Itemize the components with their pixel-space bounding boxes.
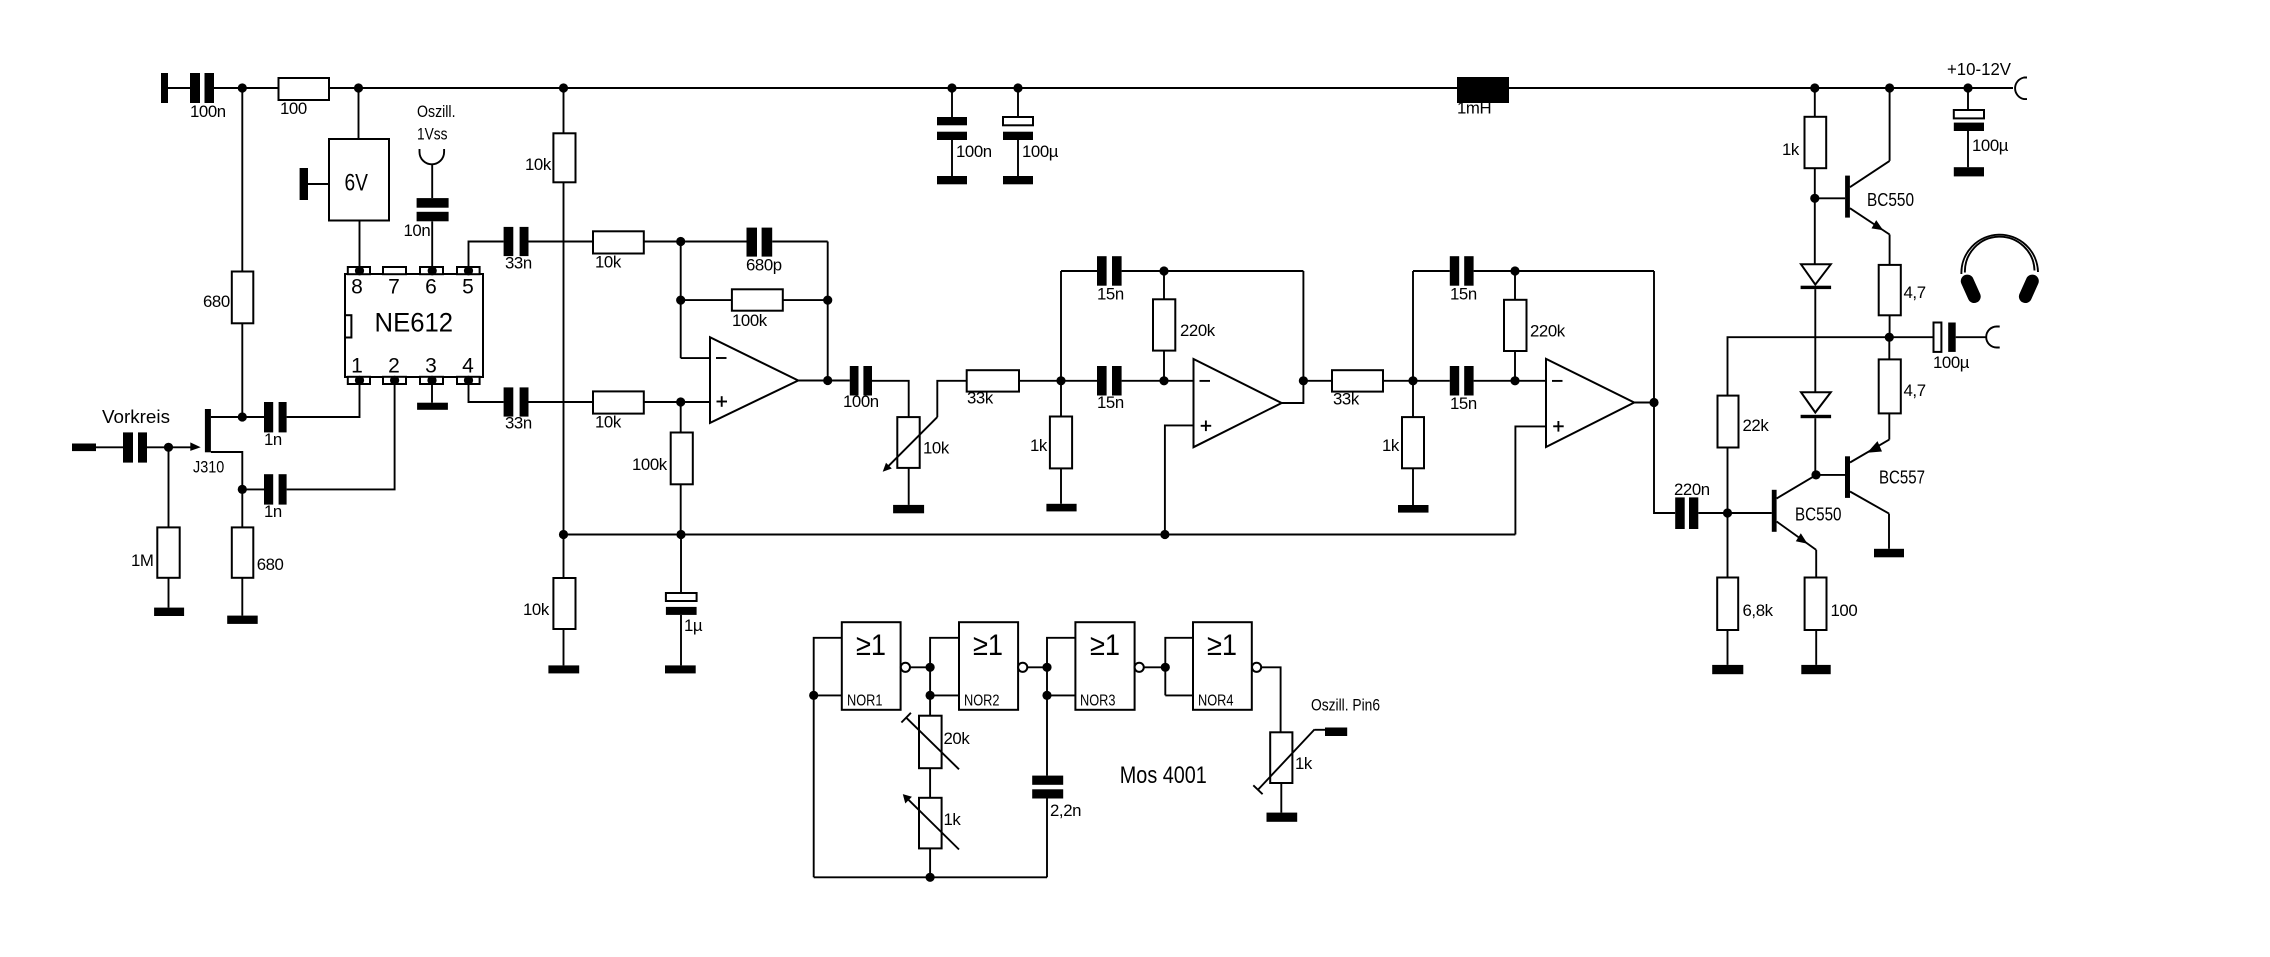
wire (pin 4 riser) xyxy=(469,384,504,402)
svg-text:Oszill. Pin6: Oszill. Pin6 xyxy=(1311,697,1380,715)
wire (op-amp output) xyxy=(798,380,850,382)
resistor 220k (op3 feedback) xyxy=(1504,300,1566,351)
node minus op3 xyxy=(1510,376,1519,385)
svg-text:15n: 15n xyxy=(1450,394,1477,413)
svg-text:1: 1 xyxy=(351,355,363,378)
wire (220k top op3) xyxy=(1514,271,1516,300)
wire xyxy=(96,446,123,448)
node 15n/220k top op3 xyxy=(1510,266,1519,275)
svg-text:NOR3: NOR3 xyxy=(1080,693,1116,710)
node pin6 xyxy=(428,266,437,275)
node 220n/22k xyxy=(1723,508,1732,517)
capacitor 100n (decoupling) xyxy=(937,117,992,161)
wire + ground (100n) xyxy=(951,140,953,176)
wire (source) xyxy=(211,452,242,489)
wire (base wire BC550 lower) xyxy=(1728,512,1772,514)
capacitor 100n (interstage) xyxy=(843,366,879,411)
node op1 out xyxy=(823,376,832,385)
svg-text:10k: 10k xyxy=(923,439,950,458)
diode D1 xyxy=(1801,264,1832,289)
ground (oszill 1k) xyxy=(1267,813,1298,822)
capacitor 33n (pin5) xyxy=(504,227,532,273)
svg-text:BC550: BC550 xyxy=(1867,190,1914,210)
wire (to 680p) xyxy=(681,241,747,243)
node bus/10k xyxy=(559,530,568,539)
node bus/op2 plus xyxy=(1160,530,1169,539)
wire (pin 5 riser) xyxy=(469,242,504,272)
svg-text:6V: 6V xyxy=(345,170,369,197)
wire (NOR2 input vertical) xyxy=(930,638,959,716)
svg-text:10k: 10k xyxy=(525,155,552,174)
resistor 100k (to bus) xyxy=(632,433,693,485)
wire (10k to node) xyxy=(644,241,681,243)
wire (drain to node) xyxy=(211,416,242,418)
wire xyxy=(1413,270,1450,272)
inductor 1mH xyxy=(1457,77,1509,118)
svg-text:2: 2 xyxy=(388,355,400,378)
svg-text:100k: 100k xyxy=(732,311,768,330)
transistor J310 Q1 xyxy=(190,409,224,477)
resistor 33k (op2 input) xyxy=(967,370,1019,407)
capacitor 100u (output, electrolytic) xyxy=(1933,323,1970,373)
potentiometer 1k (Oszill out) xyxy=(1253,729,1314,794)
node source xyxy=(238,485,247,494)
wire (680 to ground) xyxy=(241,578,243,616)
wire (node to 15n) xyxy=(1061,380,1097,382)
wire (NOR2 lower input) xyxy=(930,694,959,696)
op-amp U2C xyxy=(1546,359,1634,447)
wire (rail down to 680) xyxy=(241,88,243,272)
wire (NOR4 lower input) xyxy=(1165,694,1193,696)
wire (minus input) xyxy=(681,357,710,359)
resistor 220k (op2 feedback) xyxy=(1153,299,1216,350)
node NOR1 input xyxy=(809,691,818,700)
svg-text:1mH: 1mH xyxy=(1457,99,1491,118)
wire (33n to 10k lower) xyxy=(529,401,594,403)
wire (between diodes) xyxy=(1814,289,1816,392)
svg-text:BC550: BC550 xyxy=(1795,505,1842,525)
svg-text:4,7: 4,7 xyxy=(1904,283,1926,302)
resistor 10k (divider bottom) xyxy=(523,578,576,629)
svg-text:+10-12V: +10-12V xyxy=(1947,59,2011,79)
NOR gate NOR2 xyxy=(959,622,1027,710)
wire (source node to 680) xyxy=(241,489,243,527)
svg-text:100: 100 xyxy=(280,99,307,118)
node rail/BC550 xyxy=(1885,83,1894,92)
svg-text:6: 6 xyxy=(425,276,437,299)
wire (op3 plus to bus) xyxy=(1515,426,1546,534)
wire (1u to ground) xyxy=(680,615,682,666)
svg-text:Vorkreis: Vorkreis xyxy=(102,407,170,427)
node pin5 xyxy=(464,266,473,275)
svg-text:10k: 10k xyxy=(595,413,622,432)
wire (15n to minus node op3) xyxy=(1474,380,1515,382)
resistor 10k (first filter bottom) xyxy=(593,391,644,431)
svg-text:10k: 10k xyxy=(523,600,550,619)
svg-text:1Vss: 1Vss xyxy=(417,126,448,144)
svg-text:5: 5 xyxy=(462,276,474,299)
wire (top rail, 100n to 100) xyxy=(214,87,279,89)
wire (33k to node) xyxy=(1383,380,1413,382)
wire (bus to 10k) xyxy=(563,535,565,579)
wire (wiper to terminal) xyxy=(1315,729,1325,731)
wire (diode to collector node) xyxy=(1814,418,1816,475)
resistor 100 xyxy=(279,78,330,118)
wire (680p to fb right) xyxy=(772,241,828,243)
capacitor 1n (to pin 1) xyxy=(264,402,287,449)
op-amp U2A xyxy=(710,337,798,423)
wire (4,7 to output node) xyxy=(1889,315,1891,337)
ground (BC557) xyxy=(1874,549,1904,558)
wire (emitter to 4,7) xyxy=(1889,235,1891,265)
resistor 10k (divider top) xyxy=(525,133,576,182)
node NOR3 in lower xyxy=(1042,691,1051,700)
capacitor 100n (input coupling) xyxy=(190,73,226,121)
ground (1k op2) xyxy=(1046,504,1076,512)
terminal (Oszill. Pin6) xyxy=(1325,728,1347,737)
input terminal (top left) xyxy=(161,73,168,103)
node op3 out xyxy=(1649,398,1658,407)
capacitor 10n xyxy=(404,198,449,240)
capacitor (Vorkreis coupling) xyxy=(123,432,147,462)
NOR gate NOR3 xyxy=(1075,622,1143,710)
resistor 680 (upper) xyxy=(203,272,253,324)
wire (100k to bus) xyxy=(680,484,682,534)
resistor 10k (first filter top) xyxy=(593,231,644,271)
node 100k fb right xyxy=(823,296,832,305)
capacitor 1n (to pin 2) xyxy=(264,474,287,521)
wire (680 to drain node) xyxy=(241,323,243,417)
svg-text:10k: 10k xyxy=(595,253,622,272)
wire (220k bottom op3) xyxy=(1514,351,1516,381)
svg-text:100n: 100n xyxy=(956,142,992,161)
ground (1M) xyxy=(154,608,184,616)
resistor 4,7 (lower) xyxy=(1879,359,1926,413)
svg-text:220k: 220k xyxy=(1530,322,1566,341)
bus wire (virtual ground) xyxy=(564,534,1516,536)
wire (BC557 collector to ground) xyxy=(1888,514,1890,549)
resistor 1M xyxy=(131,527,180,577)
svg-text:Oszill.: Oszill. xyxy=(417,103,456,121)
wire (output node to 33k) xyxy=(1303,380,1332,382)
wire + ground (100u right) xyxy=(1967,131,1969,167)
wire (plus node to 100k) xyxy=(680,402,682,433)
wire (node up to 15n fb) xyxy=(1060,271,1062,381)
capacitor 220n (output coupling) xyxy=(1674,480,1710,529)
resistor 100k (feedback) xyxy=(732,289,783,330)
wire (1n to pin 2) xyxy=(287,384,395,489)
wire (6,8k to ground) xyxy=(1727,630,1729,665)
svg-text:100µ: 100µ xyxy=(1933,353,1970,372)
svg-text:1µ: 1µ xyxy=(684,616,703,635)
svg-text:20k: 20k xyxy=(944,729,971,748)
wire (15n to minus node) xyxy=(1122,380,1164,382)
headphones icon xyxy=(1961,235,2038,297)
wire (fb right vertical) xyxy=(827,242,829,381)
wire (top rail, long) xyxy=(329,87,2013,89)
wire (minus input op3) xyxy=(1515,380,1546,382)
svg-text:100n: 100n xyxy=(843,392,879,411)
svg-text:15n: 15n xyxy=(1097,393,1124,412)
wire (base node to 22k) xyxy=(1727,448,1729,514)
node NOR4 in xyxy=(1161,663,1170,672)
resistor 680 (source) xyxy=(232,527,284,577)
svg-text:1n: 1n xyxy=(264,502,282,521)
headphone jack connector arc xyxy=(1986,327,1999,348)
ground (100) xyxy=(1801,665,1830,674)
diode D2 xyxy=(1801,392,1832,418)
wire (source node to 1n) xyxy=(242,488,264,490)
wire (NOR3 out to NOR4 in) xyxy=(1144,666,1166,668)
node rail/6V xyxy=(354,83,363,92)
svg-text:1n: 1n xyxy=(264,430,282,449)
wire (rail to 100u right) xyxy=(1967,88,1969,110)
op-amp IC NE612 U1 xyxy=(345,267,483,384)
wire (15n to 220k node) xyxy=(1122,270,1164,272)
wire (10n to pin 6) xyxy=(431,221,433,271)
ground (pot) xyxy=(893,505,924,513)
wire (1M to ground) xyxy=(168,578,170,608)
wire (220k node to op2 fb corner) xyxy=(1164,270,1303,272)
ground (pin 3) xyxy=(417,384,448,410)
node 33k/15n op3 xyxy=(1408,376,1417,385)
svg-text:BC557: BC557 xyxy=(1879,468,1925,488)
node pin8 xyxy=(355,266,364,275)
capacitor 15n (op2 feedback top) xyxy=(1097,256,1124,303)
wire (NOR2 out to NOR3 in) xyxy=(1027,666,1047,668)
svg-text:220n: 220n xyxy=(1674,480,1710,499)
wire (NOR1 lower input) xyxy=(814,694,842,696)
wire (op2 output up) xyxy=(1282,271,1304,403)
wire (bus to 1u) xyxy=(680,535,682,594)
potentiometer 20k (oscillator) xyxy=(901,713,970,770)
wire (drain node to 1n) xyxy=(242,416,264,418)
node 1k/diode top xyxy=(1810,194,1819,203)
input terminal (Vorkreis) xyxy=(72,444,96,452)
capacitor 33n (pin4) xyxy=(504,387,532,432)
svg-text:1k: 1k xyxy=(1382,436,1400,455)
wire (NOR3 lower input) xyxy=(1047,694,1075,696)
svg-text:1k: 1k xyxy=(1295,754,1313,773)
op-amp U2B xyxy=(1194,359,1282,447)
svg-text:100k: 100k xyxy=(632,455,668,474)
wire (BC557 emitter to 4,7 lower) xyxy=(1888,413,1890,439)
wire (220n to base node) xyxy=(1698,512,1727,514)
wire (100 to ground) xyxy=(1815,630,1817,665)
svg-text:≥1: ≥1 xyxy=(1090,629,1120,662)
wire (minus input op2) xyxy=(1164,380,1194,382)
svg-text:1M: 1M xyxy=(131,551,154,570)
wire (node to 15n op3) xyxy=(1413,380,1450,382)
wire (6V to pin 8) xyxy=(359,221,361,272)
wire (pot wiper up) xyxy=(937,381,966,417)
wire (collector to rail) xyxy=(1889,88,1891,161)
svg-text:NE612: NE612 xyxy=(375,308,454,338)
wire (rail to 100n decoupling) xyxy=(951,88,953,117)
resistor 1k (op2 shunt) xyxy=(1030,417,1072,469)
wire (1k to ground) xyxy=(1060,468,1062,503)
svg-text:100n: 100n xyxy=(190,102,226,121)
ground (10k divider) xyxy=(548,665,579,673)
wire (base wire BC550 upper) xyxy=(1815,197,1845,199)
wire (4,7 lower top to output node) xyxy=(1888,337,1890,359)
wire (1k to ground op3) xyxy=(1412,468,1414,505)
wire (10k to plus node) xyxy=(644,401,681,403)
wire (base node to 6,8k) xyxy=(1727,513,1729,578)
wire (22k up to output line) xyxy=(1728,337,1934,395)
node rail/1k xyxy=(1810,83,1819,92)
capacitor 100u (decoupling, electrolytic) xyxy=(1003,117,1059,161)
wire (100u to jack) xyxy=(1956,336,1987,338)
resistor 4,7 (upper) xyxy=(1879,265,1926,315)
node output line/4,7 xyxy=(1885,333,1894,342)
node op2 out xyxy=(1299,376,1308,385)
potentiometer 10k (volume) xyxy=(883,417,950,472)
wire (15n to 220k node op3) xyxy=(1474,270,1515,272)
svg-text:33k: 33k xyxy=(967,389,994,408)
node bus/1u xyxy=(676,530,685,539)
potentiometer 1k (oscillator) xyxy=(903,794,962,849)
svg-text:NOR1: NOR1 xyxy=(847,693,883,710)
node diode/BC557 base xyxy=(1811,470,1820,479)
wire xyxy=(168,87,190,89)
node rail/100n xyxy=(238,83,247,92)
wire (node to BC557 base) xyxy=(1816,474,1845,476)
wire (plus input) xyxy=(681,401,710,403)
svg-text:15n: 15n xyxy=(1450,285,1477,304)
resistor 6,8k (base divider low) xyxy=(1717,578,1773,631)
wire (33n to 10k) xyxy=(529,241,594,243)
resistor 1k (op3 shunt) xyxy=(1382,417,1424,468)
wire (2,2n to bottom bus) xyxy=(1046,799,1048,878)
svg-text:33k: 33k xyxy=(1333,390,1360,409)
wire (diode chain top) xyxy=(1814,198,1816,264)
svg-text:3: 3 xyxy=(425,355,437,378)
svg-text:4,7: 4,7 xyxy=(1904,381,1926,400)
node 100k fb left xyxy=(676,296,685,305)
ground (1u) xyxy=(665,665,696,673)
wire (node to 1k) xyxy=(1060,381,1062,417)
wire (rail to 6V box) xyxy=(358,88,360,139)
node NOR2 in upper xyxy=(926,663,935,672)
node 10k/33n xyxy=(676,237,685,246)
svg-text:1k: 1k xyxy=(1030,436,1048,455)
wire (cap to gate node) xyxy=(147,446,191,448)
svg-text:33n: 33n xyxy=(505,254,532,273)
wire (1k to base node up) xyxy=(1814,168,1816,198)
svg-text:100µ: 100µ xyxy=(1972,136,2009,155)
svg-text:1k: 1k xyxy=(944,810,962,829)
regulator 6V box xyxy=(329,139,389,221)
node pin4 xyxy=(464,376,473,385)
wire (arc to 10n) xyxy=(431,164,433,199)
svg-text:Mos 4001: Mos 4001 xyxy=(1120,762,1207,789)
terminal bar at 6V xyxy=(300,168,308,200)
node rail/100u dec xyxy=(1013,83,1022,92)
power connector arc xyxy=(2015,78,2027,100)
wire (220k top) xyxy=(1163,271,1165,299)
wire (output down to 220n) xyxy=(1654,403,1675,514)
svg-text:≥1: ≥1 xyxy=(1207,629,1237,662)
svg-text:15n: 15n xyxy=(1097,285,1124,304)
resistor 100 (emitter) xyxy=(1805,578,1858,631)
resistor 33k (op3 input) xyxy=(1332,370,1383,408)
capacitor 1u (bus bypass, electrolytic) xyxy=(666,593,703,635)
wire (rail to 10k divider top) xyxy=(563,88,565,133)
svg-text:J310: J310 xyxy=(193,458,224,477)
svg-text:≥1: ≥1 xyxy=(856,629,886,662)
wire (oscillator bottom bus) xyxy=(814,876,1047,878)
capacitor 15n (op3 input series) xyxy=(1450,366,1477,413)
svg-text:33n: 33n xyxy=(505,414,532,433)
wire (NOR4 out down) xyxy=(1261,667,1280,732)
Oszill input connector arc xyxy=(420,149,445,164)
capacitor 100u (supply, right) xyxy=(1954,110,2009,155)
svg-text:4: 4 xyxy=(462,355,474,378)
wire (1k to bottom bus) xyxy=(929,848,931,877)
wire (terminal to 6V box) xyxy=(308,183,329,185)
transistor BC557 Q4 xyxy=(1845,440,1925,514)
wire (NOR1 out to NOR2 in) xyxy=(910,666,930,668)
NOR gate NOR1 xyxy=(842,622,910,710)
wire (100k to fb right) xyxy=(783,299,828,301)
ground (680) xyxy=(227,616,258,624)
wire (node to 1k op3) xyxy=(1412,381,1414,417)
capacitor 15n (op2 input series) xyxy=(1097,366,1124,412)
svg-text:1k: 1k xyxy=(1782,140,1800,159)
wire (fb corner down) xyxy=(1653,271,1655,403)
ground (1k op3) xyxy=(1398,505,1429,513)
wire + ground (100u) xyxy=(1017,140,1019,176)
wire (fb top to op3 output corner) xyxy=(1515,270,1654,272)
wire (10k down to bus) xyxy=(563,182,565,534)
wire (node to 100k fb) xyxy=(681,299,732,301)
svg-text:NOR4: NOR4 xyxy=(1198,693,1234,710)
wire (100n to pot) xyxy=(872,381,909,417)
node minus op2 xyxy=(1159,376,1168,385)
svg-text:6,8k: 6,8k xyxy=(1743,601,1774,620)
wire (NOR1 inputs tied) xyxy=(814,638,842,878)
wire (10k to ground) xyxy=(563,629,565,665)
node pin2 xyxy=(390,376,399,385)
wire (NOR4 input vertical) xyxy=(1165,638,1193,696)
node rail/100n dec xyxy=(947,83,956,92)
wire (20k to 1k) xyxy=(929,768,931,798)
transistor BC550 (upper output) Q3 xyxy=(1845,161,1914,235)
node 33k/15n op2 xyxy=(1056,376,1065,385)
node wire (minus chain vertical) xyxy=(680,242,682,359)
node NOR3 in upper xyxy=(1042,663,1051,672)
node osc bus xyxy=(926,873,935,882)
svg-text:22k: 22k xyxy=(1743,416,1770,435)
node pin1 xyxy=(355,376,364,385)
ground (6,8k) xyxy=(1712,665,1743,674)
node rail/100u right xyxy=(1963,83,1972,92)
svg-text:7: 7 xyxy=(388,276,400,299)
resistor 1k (bias) xyxy=(1782,117,1826,168)
svg-text:680: 680 xyxy=(257,555,284,574)
wire (1k pot to ground) xyxy=(1280,783,1282,813)
capacitor 15n (op3 feedback top) xyxy=(1450,256,1477,303)
svg-text:2,2n: 2,2n xyxy=(1050,801,1081,820)
capacitor 680p (feedback) xyxy=(746,228,782,275)
wire xyxy=(1061,270,1097,272)
wire (1n to pin 1) xyxy=(287,384,360,417)
wire (pot to ground) xyxy=(908,468,910,505)
wire (emitter to 100) xyxy=(1815,550,1817,578)
resistor 22k (base divider) xyxy=(1718,396,1770,448)
node pin3 xyxy=(427,376,436,385)
